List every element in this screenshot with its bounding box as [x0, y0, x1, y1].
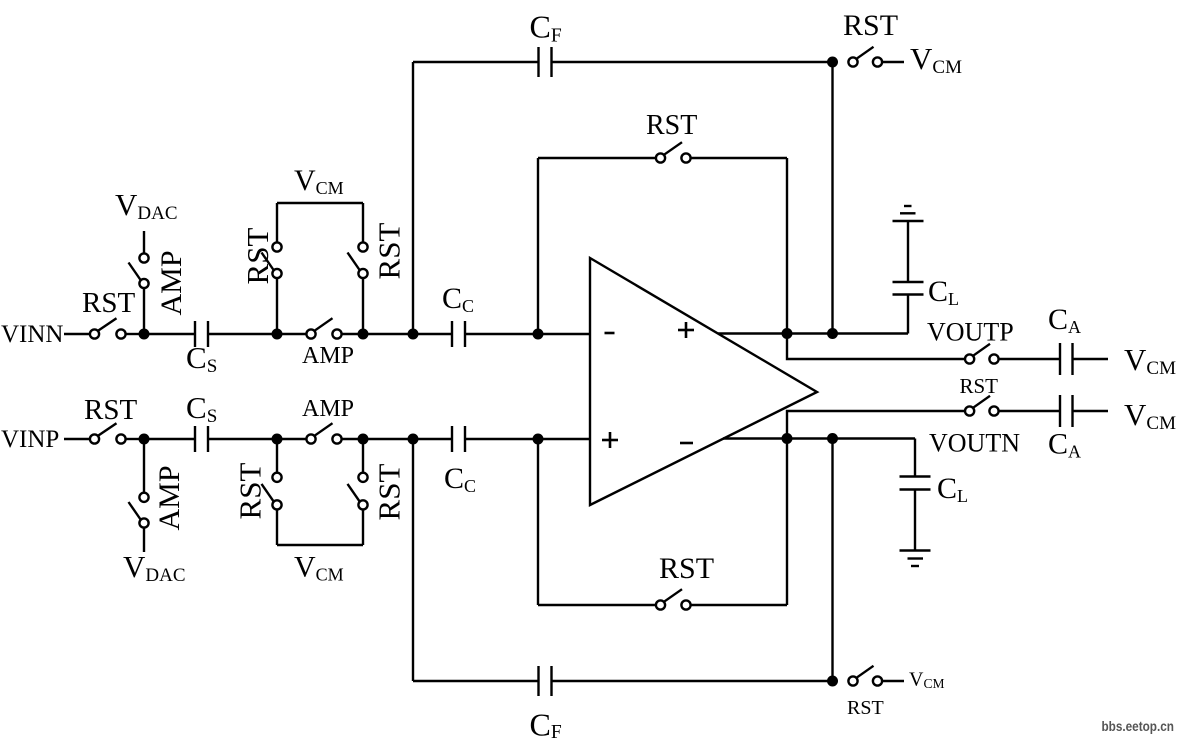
wire [143, 288, 145, 334]
wire [342, 333, 452, 335]
op-amp negative output label - [680, 442, 693, 445]
svg-text:CA: CA [1048, 303, 1081, 337]
wire [1073, 358, 1109, 360]
ground (top, inverted) [893, 206, 924, 221]
svg-text:CL: CL [937, 472, 968, 506]
svg-text:VOUTP: VOUTP [927, 318, 1014, 347]
wire output rail top [718, 332, 908, 334]
capacitor CL (bottom) [900, 472, 969, 506]
wire inner loop left (bottom) [537, 439, 539, 606]
switch AMP S5 (series top) [302, 318, 354, 369]
op-amp U1 [590, 258, 817, 505]
wire [907, 221, 909, 282]
wire VOUTP stub [787, 334, 965, 360]
wire to CL bottom [914, 439, 916, 477]
switch RST S6 (inner loop top) [646, 110, 697, 163]
junction node N1 [139, 329, 150, 340]
capacitor CC (top) [442, 282, 474, 347]
wire [552, 61, 833, 63]
wire [143, 439, 145, 493]
wire output rail bottom [723, 437, 915, 439]
svg-text:CS: CS [186, 390, 217, 427]
junction node OUTN-A [782, 433, 793, 444]
wire [208, 438, 306, 440]
svg-text:RST: RST [372, 464, 407, 521]
svg-text:VCM: VCM [1124, 397, 1176, 434]
junction node P2 [272, 434, 283, 445]
junction node CF-OUT bottom [827, 676, 838, 687]
wire [144, 333, 195, 335]
wire [538, 604, 656, 606]
ground (bottom) [900, 551, 931, 567]
capacitor CS (bottom) [186, 390, 217, 452]
switch RST S4 (right of VCM bridge) [348, 223, 407, 280]
svg-text:RST: RST [659, 552, 714, 585]
junction node N5 (inner loop tap top) [533, 329, 544, 340]
switch RST S3 (left of VCM bridge) [240, 228, 282, 285]
node VCM (top bridge) [294, 164, 344, 198]
wire inner loop right (bottom) [786, 439, 788, 606]
junction node N2 [272, 329, 283, 340]
svg-text:AMP: AMP [153, 465, 186, 530]
wire [143, 231, 145, 253]
node VINP [1, 426, 59, 453]
svg-text:VDAC: VDAC [115, 187, 178, 224]
node VCM (VOUTP side) [1124, 342, 1176, 379]
op-amp positive output label + [678, 322, 694, 338]
wire [465, 333, 590, 335]
wire [362, 278, 364, 334]
svg-text:AMP: AMP [302, 396, 354, 422]
wire VOUTN stub [787, 411, 965, 439]
wire [691, 604, 787, 606]
wire [914, 490, 916, 551]
svg-text:AMP: AMP [302, 343, 354, 369]
svg-text:VCM: VCM [909, 669, 944, 692]
wire inner loop left (top) [537, 158, 539, 334]
node VDAC [115, 187, 178, 224]
switch RST S1 [82, 287, 135, 339]
junction node OUTN-B [827, 433, 838, 444]
junction node OUTP-B [827, 328, 838, 339]
switch RST S12 (VINP) [84, 394, 137, 444]
capacitor CF (top) [530, 9, 562, 78]
wire [691, 157, 787, 159]
op-amp inverting input label - [605, 332, 615, 335]
wire [126, 333, 140, 335]
capacitor CS (top) [186, 321, 217, 377]
junction node CF-OUT top [827, 57, 838, 68]
svg-text:RST: RST [372, 223, 407, 280]
wire outer column (top) [831, 62, 833, 334]
wire inner loop right (top) [786, 158, 788, 334]
wire [144, 438, 195, 440]
junction node N3 [358, 329, 369, 340]
wire CF top rail [413, 61, 539, 63]
capacitor CF (bottom) [530, 666, 562, 740]
switch RST S11 (inner loop bottom) [656, 552, 714, 610]
wire [538, 157, 656, 159]
wire outer column (bottom) [831, 439, 833, 682]
wire [362, 203, 364, 242]
capacitor CA (bottom) [1048, 395, 1081, 462]
node VDAC (bottom) [123, 549, 186, 586]
wire [882, 61, 904, 63]
svg-text:RST: RST [843, 9, 898, 42]
capacitor CL (top) [893, 275, 960, 309]
wire [276, 510, 278, 546]
wire [362, 439, 364, 473]
svg-text:bbs.eetop.cn: bbs.eetop.cn [1102, 718, 1175, 734]
node VCM (VOUTN side) [1124, 397, 1176, 434]
wire [552, 680, 833, 682]
node VOUTN [929, 429, 1020, 458]
junction node P3 [358, 434, 369, 445]
wire [999, 410, 1060, 412]
wire [882, 680, 904, 682]
svg-text:RST: RST [240, 228, 275, 285]
svg-text:CC: CC [442, 282, 474, 316]
wire [143, 528, 145, 552]
svg-text:RST: RST [960, 374, 999, 398]
switch RST S8 (VOUTP) [960, 344, 999, 398]
junction node N4 (CF tap top) [408, 329, 419, 340]
svg-text:VDAC: VDAC [123, 549, 186, 586]
wire CF bottom rail [413, 680, 539, 682]
wire [276, 278, 278, 334]
capacitor CC (bottom) [444, 426, 476, 496]
svg-text:VINN: VINN [1, 321, 64, 348]
svg-text:VCM: VCM [294, 164, 344, 198]
wire [999, 358, 1060, 360]
junction node P1 [139, 434, 150, 445]
switch AMP S2 (to VDAC) [129, 250, 189, 315]
watermark bbs.eetop.cn [1102, 718, 1175, 734]
junction node P5 (inner loop tap bottom) [533, 434, 544, 445]
wire [342, 438, 452, 440]
wire [362, 510, 364, 546]
wire [276, 203, 278, 242]
switch RST S7 (top right, to VCM) [843, 9, 898, 67]
wire [64, 333, 90, 335]
capacitor CA (top) [1048, 303, 1081, 375]
svg-text:CF: CF [530, 9, 562, 47]
op-amp non-inverting input label + [602, 432, 618, 448]
wire [276, 439, 278, 473]
wire [208, 333, 306, 335]
wire CF column (top) [412, 62, 414, 334]
node VCM (top right) [910, 41, 962, 78]
svg-text:RST: RST [646, 110, 697, 141]
svg-text:CA: CA [1048, 428, 1081, 462]
wire [126, 438, 140, 440]
node VOUTP [927, 318, 1014, 347]
svg-text:RST: RST [847, 697, 884, 719]
node VCM (bottom right) [909, 669, 944, 692]
wire VCM bus (top) [277, 202, 363, 204]
svg-text:VINP: VINP [1, 426, 59, 453]
svg-text:RST: RST [84, 394, 137, 426]
svg-text:CL: CL [928, 275, 959, 309]
node VCM (bottom bridge) [294, 551, 344, 585]
switch RST S10 (bottom right, to VCM) [847, 666, 884, 719]
switch RST S14 (left of VCM bridge bottom) [233, 463, 282, 520]
svg-text:CC: CC [444, 462, 476, 496]
svg-text:RST: RST [82, 287, 135, 319]
wire VCM bus (bottom) [277, 544, 363, 546]
wire [1073, 410, 1109, 412]
junction node P4 (CF tap bottom) [408, 434, 419, 445]
switch AMP S13 (to VDAC bottom) [129, 465, 187, 530]
svg-text:VOUTN: VOUTN [929, 429, 1020, 458]
svg-text:RST: RST [233, 463, 268, 520]
switch AMP S16 (series bottom) [302, 396, 354, 444]
svg-text:VCM: VCM [1124, 342, 1176, 379]
svg-text:CF: CF [530, 707, 562, 740]
wire [64, 438, 90, 440]
svg-text:CS: CS [186, 340, 217, 377]
svg-text:AMP: AMP [155, 250, 188, 315]
node VINN [1, 321, 64, 348]
switch RST S9 (VOUTN) [965, 396, 999, 416]
switch RST S15 (right of VCM bridge bottom) [348, 464, 407, 521]
junction node OUTP-A [782, 328, 793, 339]
wire CF column (bottom) [412, 439, 414, 681]
wire [465, 438, 590, 440]
svg-text:VCM: VCM [294, 551, 344, 585]
wire to CL top [907, 295, 909, 334]
svg-text:VCM: VCM [910, 41, 962, 78]
